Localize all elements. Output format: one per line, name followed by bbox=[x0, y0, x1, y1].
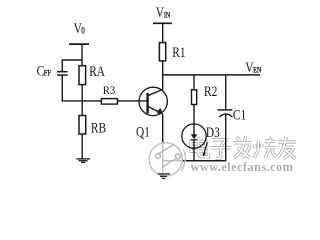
svg-text:R1: R1 bbox=[172, 44, 185, 61]
node VEN label bbox=[245, 58, 261, 75]
wire ground stem right bbox=[162, 161, 164, 174]
wire RB bottom bbox=[81, 134, 83, 159]
watermark logo head bbox=[149, 143, 185, 176]
node VIN label bbox=[156, 3, 170, 20]
resistor R2 bbox=[192, 90, 197, 105]
wire VIN stem bbox=[162, 23, 164, 42]
wire VEN rail bbox=[163, 74, 261, 76]
wire RA bottom bbox=[81, 85, 83, 101]
wire RB top stub bbox=[81, 101, 83, 116]
diode D3 bbox=[182, 124, 208, 161]
resistor R1 bbox=[159, 43, 165, 61]
wire C1 stub bbox=[225, 75, 227, 110]
resistor RA bbox=[79, 66, 86, 85]
svg-text:D3: D3 bbox=[206, 123, 220, 140]
power bar V0 bbox=[69, 43, 89, 45]
wire CFF bottom stub bbox=[61, 75, 63, 102]
wire R1 bottom bbox=[162, 61, 164, 76]
resistor R3 bbox=[101, 99, 117, 105]
node V0 label bbox=[74, 19, 85, 36]
svg-text:FF: FF bbox=[44, 68, 51, 78]
svg-text:C1: C1 bbox=[233, 106, 246, 123]
capacitor C1 bbox=[218, 110, 233, 117]
wire base net horizontal bbox=[62, 100, 147, 102]
wire CFF top stub bbox=[61, 59, 63, 71]
svg-text:RB: RB bbox=[91, 119, 106, 136]
wire R2 stub bbox=[193, 75, 195, 90]
label CFF bbox=[37, 62, 51, 79]
resistor RB bbox=[79, 116, 86, 135]
ground left bbox=[76, 159, 90, 163]
svg-text:R2: R2 bbox=[204, 83, 217, 100]
svg-text:IN: IN bbox=[164, 11, 170, 20]
svg-text:0: 0 bbox=[81, 26, 84, 36]
ground right bbox=[158, 174, 170, 179]
svg-text:EN: EN bbox=[253, 66, 261, 75]
svg-text:RA: RA bbox=[89, 62, 105, 79]
svg-text:V: V bbox=[156, 3, 165, 20]
svg-text:R3: R3 bbox=[103, 85, 116, 98]
wire collector stub bbox=[162, 75, 164, 90]
wire V0 stem bbox=[81, 44, 83, 66]
power bar VIN bbox=[153, 22, 172, 24]
transistor Q1 bbox=[139, 87, 167, 115]
svg-text:V: V bbox=[245, 58, 254, 75]
wire branch to CFF bbox=[62, 59, 82, 61]
svg-text:www.elecfans.com: www.elecfans.com bbox=[191, 160, 294, 174]
wire C1 bottom bbox=[225, 114, 227, 161]
wire bottom rail bbox=[163, 160, 226, 162]
svg-text:Q1: Q1 bbox=[136, 123, 150, 140]
capacitor CFF bbox=[57, 72, 68, 75]
wire R2 to D3 bbox=[193, 105, 195, 135]
wire emitter down bbox=[162, 114, 164, 161]
